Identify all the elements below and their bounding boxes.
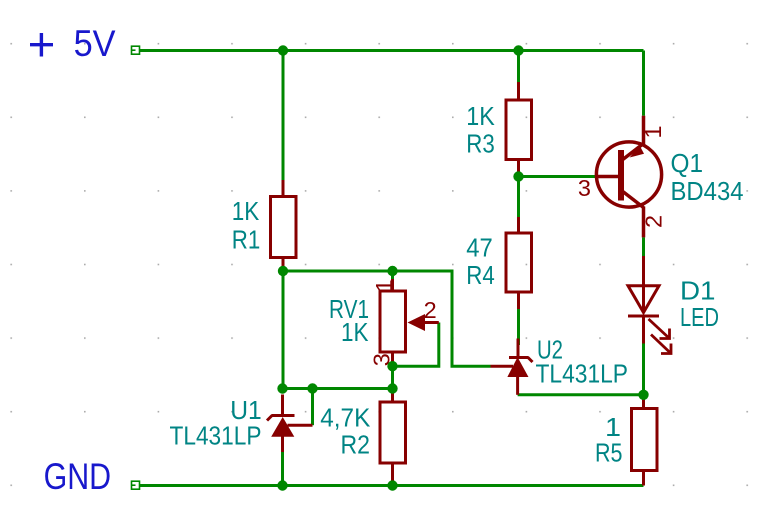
wire: RV1 top node over to U2 ref: [393, 271, 491, 366]
+5V label anchor square: [132, 46, 140, 54]
junction rail/R1: [278, 45, 288, 55]
Q1 emitter arrow: [630, 146, 645, 158]
wire: RV1 wiper loop to pin3 node: [398, 323, 439, 367]
junction D1/R5/U2 node: [638, 390, 648, 400]
wire: D1 cathode to node: [642, 344, 645, 395]
svg-text:R4: R4: [466, 260, 495, 290]
svg-text:LED: LED: [680, 302, 719, 332]
resistor R2: [380, 392, 406, 482]
svg-text:1K: 1K: [232, 196, 260, 226]
wire: R3 bottom node to R4 top: [517, 177, 520, 218]
wire: rail to R1 top: [282, 51, 285, 181]
wire: R1 bottom to RV1 top: [283, 270, 393, 273]
junction R1 bottom node: [278, 266, 288, 276]
wire: RV1 pin3 down to R2 node: [391, 361, 394, 392]
svg-text:R2: R2: [341, 430, 371, 460]
U1 triangle: [273, 419, 294, 437]
GND label anchor square: [132, 481, 140, 489]
svg-text:1K: 1K: [466, 101, 495, 131]
junction U1 anode GND node: [277, 480, 287, 490]
junction U1 ref node: [307, 383, 317, 393]
junction R2 top node: [387, 383, 397, 393]
power label +5V: [30, 33, 53, 57]
wire: +5V top rail: [140, 49, 644, 52]
junction U1 cathode node: [277, 383, 287, 393]
wire: junction to RV1 pin1: [391, 271, 394, 280]
shunt regulator U2 TL431LP: [491, 339, 533, 395]
svg-text:GND: GND: [44, 456, 112, 497]
junction RV1 top node: [387, 266, 397, 276]
resistor R1: [271, 180, 297, 268]
transistor Q1: [596, 116, 662, 238]
svg-text:TL431LP: TL431LP: [170, 421, 262, 451]
svg-text:R5: R5: [595, 438, 623, 468]
wire: U1 node horizontal: [283, 387, 393, 390]
wire: R1 bottom down to U1 node: [282, 266, 285, 389]
resistor R5: [632, 399, 658, 486]
D1 emission arrows: [649, 319, 672, 354]
svg-text:Q1: Q1: [671, 148, 704, 178]
svg-text:3: 3: [578, 175, 591, 201]
U2 triangle: [509, 359, 528, 377]
wire: rail to R3 top: [517, 51, 520, 83]
wire: top rail drop to Q1 collector: [642, 51, 645, 116]
junction R3/R4/base node: [513, 171, 523, 181]
svg-text:BD434: BD434: [671, 176, 744, 206]
wire: U1 ref riser: [311, 389, 314, 426]
svg-text:1: 1: [371, 279, 397, 292]
svg-text:D1: D1: [680, 276, 716, 306]
svg-text:R3: R3: [466, 129, 495, 159]
svg-text:47: 47: [466, 233, 493, 263]
svg-text:TL431LP: TL431LP: [536, 359, 629, 389]
junction rail/R3: [513, 45, 523, 55]
wire: GND rail: [140, 484, 644, 487]
svg-text:R1: R1: [232, 225, 260, 255]
svg-text:2: 2: [640, 215, 666, 228]
diode D1 LED: [628, 256, 659, 344]
svg-text:1: 1: [640, 125, 666, 138]
wire: U2 anode to R5/D1 node: [518, 393, 644, 396]
shunt regulator U1 TL431LP: [267, 395, 313, 453]
resistor R3: [506, 82, 532, 173]
Q1 base bar: [618, 150, 624, 201]
wire: R3/R4 node to Q1 base: [519, 175, 597, 178]
wire: Q1 emitter to D1 anode: [642, 237, 645, 256]
svg-text:1K: 1K: [341, 317, 369, 347]
svg-text:2: 2: [424, 297, 437, 323]
svg-text:4,7K: 4,7K: [320, 403, 371, 433]
potentiometer RV1: [380, 279, 439, 362]
wire: R4 bottom to U2 cathode: [517, 309, 520, 345]
RV1 wiper arrow: [408, 314, 426, 331]
junction R2 bottom GND node: [387, 480, 397, 490]
junction RV1 pin3 node: [387, 361, 397, 371]
resistor R4: [506, 217, 532, 309]
svg-text:5V: 5V: [74, 23, 116, 64]
wire: U1 anode to GND rail: [281, 452, 284, 486]
